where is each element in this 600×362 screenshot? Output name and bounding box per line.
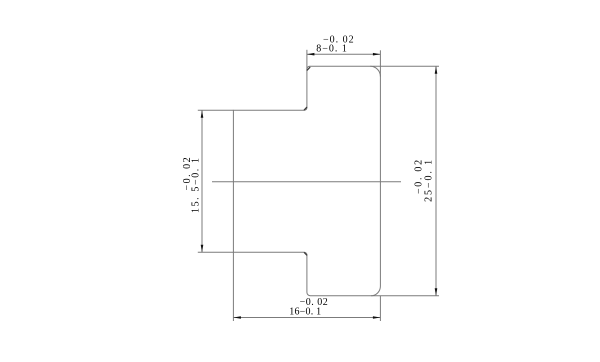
arrowhead 15.5 dim top [201, 110, 204, 118]
extension line right of 16 dim [379, 296, 381, 321]
svg-text:25−0. 1: 25−0. 1 [424, 158, 435, 202]
arrowhead 15.5 dim bottom [201, 245, 204, 253]
dimension line 16 [233, 317, 380, 319]
extension line top of 15.5 dim [198, 109, 234, 111]
extension line left of 16 dim [232, 252, 234, 321]
part outline [233, 66, 380, 295]
arrowhead 8 dim right [373, 53, 381, 56]
corner tick at tab top-left fillet [307, 67, 310, 70]
arrowhead 25 dim bottom [435, 288, 438, 296]
extension line bottom of 15.5 dim [198, 251, 234, 253]
arrowhead 16 dim left [233, 316, 241, 319]
extension line top-right of 8 dim [379, 50, 381, 76]
extension line bottom of 25 dim [371, 295, 439, 297]
arrowhead 16 dim right [373, 316, 381, 319]
dimension line 8 [307, 53, 381, 55]
dimension line 15.5 [201, 110, 203, 252]
centerline [212, 181, 401, 183]
corner tick at step inner fillet [304, 107, 307, 110]
arrowhead 25 dim top [435, 66, 438, 74]
extension line top-left of 8 dim [306, 50, 308, 71]
svg-text:8−0. 1: 8−0. 1 [316, 44, 348, 55]
svg-text:16−0. 1: 16−0. 1 [289, 306, 321, 317]
dimension line 25 [435, 66, 437, 295]
arrowhead 8 dim left [307, 53, 315, 56]
extension line top of 25 dim [370, 65, 439, 67]
corner tick at lower step fillet [304, 253, 306, 255]
svg-text:15. 5−0. 1: 15. 5−0. 1 [190, 156, 201, 213]
